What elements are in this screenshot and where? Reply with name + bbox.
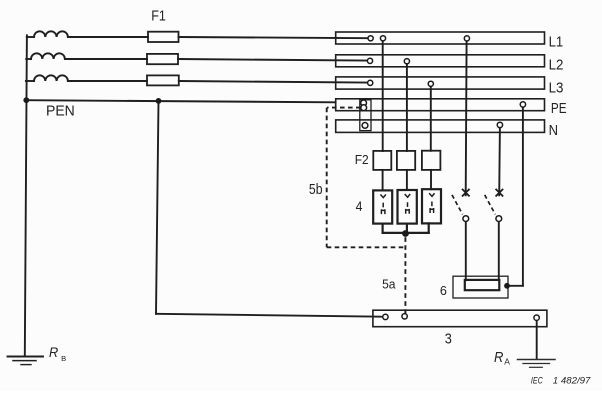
svg-text:L1: L1 [549, 34, 564, 51]
svg-text:F2: F2 [355, 152, 369, 167]
svg-text:6: 6 [440, 283, 447, 298]
svg-text:5a: 5a [382, 277, 396, 292]
svg-text:5b: 5b [309, 182, 323, 198]
svg-text:3: 3 [445, 331, 452, 347]
svg-text:4: 4 [356, 199, 363, 214]
svg-text:PE: PE [551, 100, 567, 117]
svg-text:L3: L3 [549, 80, 564, 97]
svg-text:L2: L2 [549, 57, 564, 74]
svg-text:1 482/97: 1 482/97 [553, 376, 591, 387]
svg-text:N: N [549, 122, 558, 139]
svg-text:R: R [49, 345, 59, 360]
svg-text:PEN: PEN [46, 103, 75, 119]
svg-text:A: A [504, 357, 510, 367]
svg-text:B: B [61, 354, 66, 363]
svg-text:R: R [494, 350, 504, 366]
svg-text:IEC: IEC [531, 376, 543, 387]
svg-text:F1: F1 [151, 8, 166, 25]
